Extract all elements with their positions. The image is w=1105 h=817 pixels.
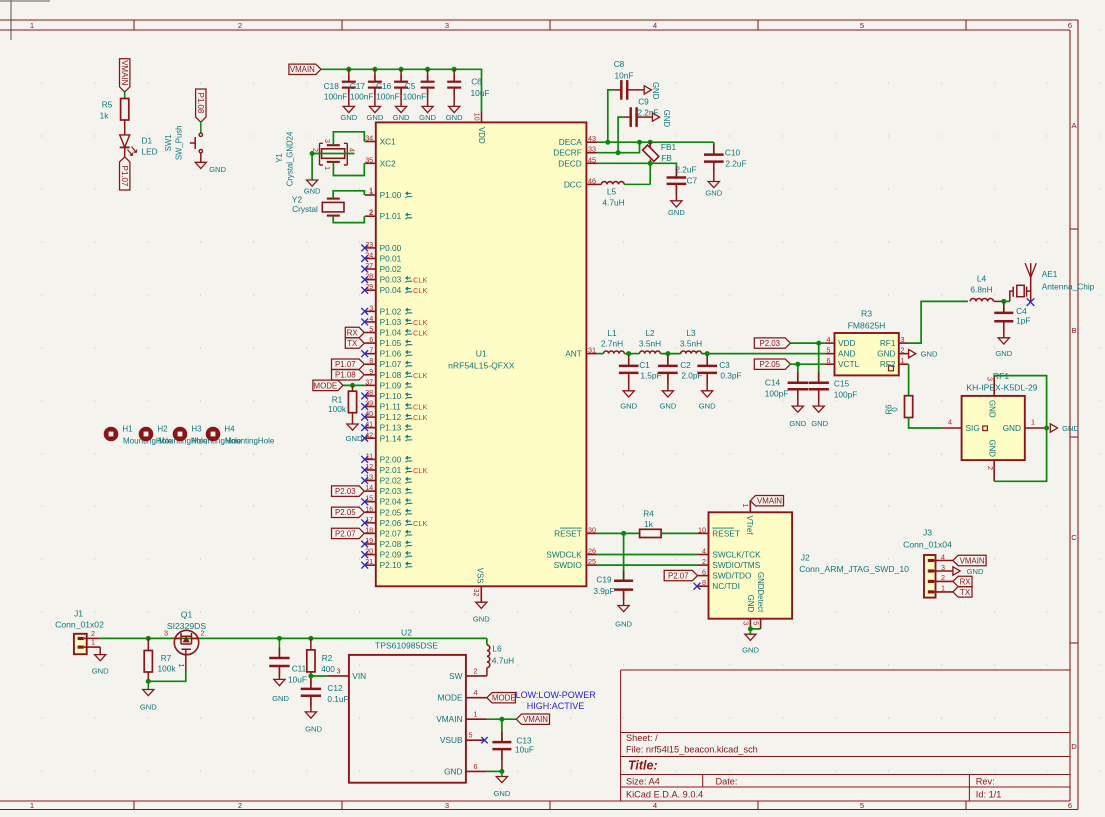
wire SWDIO <box>597 564 697 566</box>
capacitor C7 2.2uF <box>675 167 677 178</box>
svg-text:3: 3 <box>337 666 341 675</box>
svg-text:D1: D1 <box>142 135 153 145</box>
svg-text:L4: L4 <box>977 274 987 284</box>
svg-text:P1.07: P1.07 <box>380 359 402 369</box>
svg-text:XC2: XC2 <box>380 158 397 168</box>
junction <box>399 67 404 72</box>
svg-text:1: 1 <box>901 356 905 365</box>
U1 pin 2 P1.01 <box>365 215 376 217</box>
ground <box>745 634 756 640</box>
U1 pin 23 P0.00 <box>365 247 376 249</box>
svg-text:100pF: 100pF <box>834 390 858 400</box>
svg-text:MountingHole: MountingHole <box>225 436 275 445</box>
svg-text:2: 2 <box>901 346 905 355</box>
svg-text:KH-IPEX-K5DL-29: KH-IPEX-K5DL-29 <box>966 382 1037 392</box>
wire <box>200 153 202 162</box>
svg-text:0.1uF: 0.1uF <box>327 694 348 704</box>
U1 pin 13 P2.02 <box>365 480 376 482</box>
J2 pin 3 GND bottom <box>749 619 751 629</box>
wire R6 to SIG <box>909 418 942 429</box>
wire P1.00 <box>333 191 364 199</box>
wire C14 riser <box>797 364 799 382</box>
svg-text:32: 32 <box>472 589 481 597</box>
svg-text:FM8625H: FM8625H <box>848 321 886 331</box>
no-connect X <box>361 414 368 421</box>
svg-text:Sheet: /: Sheet: / <box>626 733 658 743</box>
U1 pin 11 P2.00 <box>365 458 376 460</box>
svg-text:GND: GND <box>705 188 722 197</box>
svg-text:P2.07: P2.07 <box>380 528 402 538</box>
svg-text:R3: R3 <box>861 309 872 319</box>
svg-text:P1.12: P1.12 <box>380 412 402 422</box>
svg-text:1: 1 <box>30 21 34 30</box>
svg-text:P1.04: P1.04 <box>380 328 402 338</box>
wire <box>790 342 824 344</box>
svg-text:P1.03: P1.03 <box>380 317 402 327</box>
svg-text:GND: GND <box>699 402 716 411</box>
wire <box>638 116 653 118</box>
U1 pin 40 P1.12 <box>365 416 376 418</box>
capacitor C6 <box>453 69 455 81</box>
ground <box>95 655 106 661</box>
capacitor C9 2.2nF <box>629 107 632 127</box>
svg-text:8: 8 <box>702 578 706 587</box>
svg-text:VTref: VTref <box>745 516 754 536</box>
wire XC2 <box>333 162 364 176</box>
svg-text:GND: GND <box>419 113 436 122</box>
junction <box>621 531 626 536</box>
U2 pin 3 VIN <box>328 675 349 677</box>
inductor L2 3.5nH <box>640 351 661 354</box>
hier label VMAIN (rail) <box>289 64 321 74</box>
resistor R2 400 <box>310 638 312 650</box>
ground <box>307 180 318 186</box>
wire <box>624 353 639 355</box>
svg-text:CLK: CLK <box>413 466 427 475</box>
U1 pin 42 P1.14 <box>365 437 376 439</box>
svg-text:P1.08: P1.08 <box>380 370 402 380</box>
svg-text:GNDDetect: GNDDetect <box>756 572 765 613</box>
no-connect X <box>361 308 368 315</box>
svg-text:18: 18 <box>365 525 373 534</box>
U1 pin 8 P1.07 <box>365 363 376 365</box>
inductor L1 2.7nH <box>604 351 625 354</box>
svg-text:C11: C11 <box>292 663 307 673</box>
J3 pin 1 <box>928 590 934 593</box>
capacitor C2 2.0pF <box>667 354 669 366</box>
U1 nRF54L15-QFXX body <box>376 122 587 586</box>
svg-text:P1.07: P1.07 <box>120 166 129 187</box>
svg-text:GND: GND <box>304 187 321 196</box>
no-connect X <box>361 403 368 410</box>
hier label P1.08 <box>332 370 365 380</box>
svg-text:20: 20 <box>365 547 373 556</box>
svg-text:4: 4 <box>653 21 657 30</box>
J3 pin 2 <box>928 580 934 583</box>
hier label VMAIN (LED branch) <box>120 59 130 92</box>
wire XC1 <box>333 132 364 145</box>
ground at VSS <box>476 602 487 608</box>
wire SWDCLK <box>597 554 697 556</box>
inductor L3 3.5nH <box>681 351 702 354</box>
svg-text:3: 3 <box>445 21 449 30</box>
svg-text:4: 4 <box>827 335 831 344</box>
U1 pin 17 P2.06 <box>365 522 376 524</box>
svg-text:C8: C8 <box>614 59 625 69</box>
junction <box>499 717 504 722</box>
svg-text:26: 26 <box>588 547 596 556</box>
no-connect X <box>361 498 368 505</box>
RF1 KH-IPEX-K5DL-29 body <box>962 396 1025 460</box>
svg-text:6: 6 <box>1068 801 1072 810</box>
U1 pin 19 P2.08 <box>365 543 376 545</box>
svg-text:GND: GND <box>662 110 671 128</box>
no-connect X <box>361 435 368 442</box>
svg-text:H1: H1 <box>122 425 133 434</box>
svg-text:100nF: 100nF <box>350 92 374 102</box>
svg-text:LED: LED <box>142 146 158 156</box>
svg-text:P2.06: P2.06 <box>380 518 402 528</box>
wire C4 riser <box>1003 301 1005 312</box>
page origin axis marker <box>0 0 50 2</box>
ground <box>274 679 285 685</box>
no-connect X <box>361 287 368 294</box>
no-connect X <box>361 519 368 526</box>
svg-text:2: 2 <box>201 629 205 638</box>
junction <box>748 626 753 631</box>
wire <box>311 154 313 180</box>
U1 pin 9 P1.08 <box>365 374 376 376</box>
no-connect X <box>361 245 368 252</box>
R3 pin 6 VCTL <box>825 363 835 365</box>
ground <box>195 162 206 168</box>
U1 pin 29 P0.04 <box>365 289 376 291</box>
svg-text:100nF: 100nF <box>403 92 427 102</box>
svg-text:C15: C15 <box>834 378 850 388</box>
svg-text:1: 1 <box>1031 417 1035 426</box>
inductor L5 4.7uH <box>597 183 601 185</box>
svg-text:GND: GND <box>92 667 109 676</box>
RF1 pin 4 SIG <box>941 427 961 429</box>
svg-text:5: 5 <box>827 346 831 355</box>
hier label P2.07 <box>332 528 365 538</box>
svg-text:GND: GND <box>620 402 637 411</box>
U1 pin 18 P2.07 <box>365 532 376 534</box>
svg-text:1: 1 <box>941 584 945 593</box>
wire <box>750 629 760 634</box>
wire VIN <box>311 675 328 677</box>
svg-text:GND: GND <box>140 703 157 712</box>
svg-text:L1: L1 <box>607 328 617 338</box>
svg-text:VMAIN: VMAIN <box>757 497 782 506</box>
svg-text:RESET: RESET <box>712 528 740 538</box>
svg-text:37: 37 <box>365 377 373 386</box>
svg-text:2.7nH: 2.7nH <box>601 338 623 348</box>
svg-text:400: 400 <box>321 664 335 674</box>
svg-text:33: 33 <box>588 145 596 154</box>
resistor R6 0 <box>908 364 910 396</box>
svg-text:3.5nH: 3.5nH <box>680 338 702 348</box>
svg-text:2: 2 <box>91 629 95 638</box>
svg-text:VMAIN: VMAIN <box>523 715 548 724</box>
J2 pin 6 SWD/TDO <box>698 575 709 577</box>
svg-text:P0.00: P0.00 <box>380 243 402 253</box>
svg-text:11: 11 <box>366 451 373 460</box>
svg-text:CLK: CLK <box>413 318 427 327</box>
svg-text:P1.06: P1.06 <box>380 349 402 359</box>
capacitor C19 3.9pF <box>623 570 625 581</box>
wire <box>661 532 697 534</box>
no-connect X <box>361 319 368 326</box>
svg-text:10nF: 10nF <box>615 71 634 81</box>
svg-text:3.9pF: 3.9pF <box>593 586 614 596</box>
svg-text:6: 6 <box>369 335 373 344</box>
wire <box>310 672 312 688</box>
svg-text:C6: C6 <box>471 77 482 87</box>
U1 pin 31 ANT <box>586 353 597 355</box>
R3 pin 1 RF2 <box>899 363 909 365</box>
svg-text:VDD: VDD <box>838 338 856 348</box>
title block <box>621 669 1070 671</box>
junction <box>499 769 504 774</box>
svg-text:MODE: MODE <box>438 693 463 703</box>
svg-text:42: 42 <box>365 430 373 439</box>
svg-text:U2: U2 <box>401 627 412 637</box>
svg-text:P1.10: P1.10 <box>380 391 402 401</box>
svg-text:C9: C9 <box>638 96 649 106</box>
wire <box>487 718 516 720</box>
svg-text:P2.01: P2.01 <box>380 465 402 475</box>
wire <box>713 163 715 182</box>
ground <box>449 106 460 112</box>
svg-text:10: 10 <box>698 525 706 534</box>
svg-text:P0.04: P0.04 <box>380 285 402 295</box>
svg-text:SWDIO/TMS: SWDIO/TMS <box>712 560 760 570</box>
svg-text:10: 10 <box>473 113 482 121</box>
svg-text:R5: R5 <box>102 99 113 109</box>
U1 pin 28 P0.03 <box>365 279 376 281</box>
svg-text:GND: GND <box>921 350 938 359</box>
svg-text:GND: GND <box>988 439 997 457</box>
capacitor C12 0.1uF <box>310 678 312 689</box>
U1 pin 4 P1.03 <box>365 321 376 323</box>
svg-text:2: 2 <box>474 666 478 675</box>
svg-text:DECD: DECD <box>558 158 582 168</box>
J1 Conn_01x02 body <box>74 634 87 654</box>
svg-text:100k: 100k <box>158 663 177 673</box>
svg-text:VMAIN: VMAIN <box>436 714 462 724</box>
wire <box>124 120 126 135</box>
wire C15 riser <box>818 343 820 382</box>
svg-text:DECRF: DECRF <box>553 148 582 158</box>
svg-text:Title:: Title: <box>628 759 658 773</box>
svg-text:J3: J3 <box>923 528 932 538</box>
svg-text:24: 24 <box>365 250 373 259</box>
wire <box>200 122 202 133</box>
svg-text:35: 35 <box>365 155 373 164</box>
svg-text:GND: GND <box>742 645 759 654</box>
capacitor C11 10uF <box>278 638 280 657</box>
svg-text:C10: C10 <box>725 148 741 158</box>
no-connect X <box>361 456 368 463</box>
svg-text:C1: C1 <box>639 360 650 370</box>
svg-text:GND: GND <box>209 165 226 174</box>
svg-text:6: 6 <box>1068 21 1072 30</box>
capacitor C17 <box>374 69 376 81</box>
svg-text:6: 6 <box>474 762 478 771</box>
wire DECA rail <box>597 141 713 143</box>
svg-text:Size: A4: Size: A4 <box>626 777 660 787</box>
svg-text:P1.08: P1.08 <box>196 93 205 114</box>
junction <box>616 150 621 155</box>
svg-text:1k: 1k <box>644 519 654 529</box>
svg-text:R1: R1 <box>332 394 343 404</box>
svg-text:6: 6 <box>702 568 706 577</box>
resistor R5 <box>121 99 129 121</box>
resistor R1 100k <box>348 391 356 413</box>
capacitor C15 100pF <box>818 372 820 383</box>
svg-text:43: 43 <box>588 134 596 143</box>
svg-text:SWD/TDO: SWD/TDO <box>712 571 752 581</box>
J2 pin 5 GNDDetect bottom <box>760 619 762 629</box>
svg-text:P2.05: P2.05 <box>759 360 780 369</box>
LED D1 <box>120 135 130 147</box>
svg-text:GND: GND <box>493 789 510 798</box>
svg-text:Conn_01x04: Conn_01x04 <box>903 539 952 549</box>
svg-text:16: 16 <box>365 504 373 513</box>
svg-text:1pF: 1pF <box>1016 315 1030 325</box>
wire <box>147 672 149 681</box>
svg-text:H2: H2 <box>157 425 168 434</box>
svg-text:2.2uF: 2.2uF <box>725 159 746 169</box>
svg-text:2: 2 <box>986 466 995 470</box>
mounting hole H1 <box>104 427 119 442</box>
junction <box>308 636 313 641</box>
wire C9 riser <box>618 117 624 153</box>
no-connect X <box>361 562 368 569</box>
svg-text:RX: RX <box>347 328 359 337</box>
svg-text:P1.13: P1.13 <box>380 423 402 433</box>
U1 pin 45 DECD <box>586 162 597 164</box>
svg-text:2.2uF: 2.2uF <box>675 164 696 174</box>
svg-text:LOW:LOW-POWER: LOW:LOW-POWER <box>516 690 597 700</box>
svg-text:1: 1 <box>474 710 478 719</box>
hier label TX <box>345 338 364 348</box>
junction <box>277 636 282 641</box>
inductor L4 6.8nH <box>970 298 993 301</box>
hier label P2.07 at J2 <box>664 570 697 580</box>
svg-text:34: 34 <box>365 134 373 143</box>
wire gate <box>148 671 186 682</box>
J1 pin 2 <box>78 637 84 640</box>
svg-text:3: 3 <box>986 377 995 381</box>
svg-text:P1.07: P1.07 <box>335 360 356 369</box>
svg-text:RF1: RF1 <box>880 338 896 348</box>
svg-text:GND: GND <box>651 82 660 100</box>
svg-text:10uF: 10uF <box>288 674 307 684</box>
svg-text:3: 3 <box>164 629 168 638</box>
svg-text:2: 2 <box>238 21 242 30</box>
U1 pin 16 P2.05 <box>365 511 376 513</box>
svg-text:P2.10: P2.10 <box>380 560 402 570</box>
ground <box>422 106 433 112</box>
wire main power rail <box>99 637 487 639</box>
hier label P1.07 <box>332 359 365 369</box>
junction <box>146 636 151 641</box>
junction <box>350 383 355 388</box>
svg-text:GND: GND <box>659 402 676 411</box>
svg-text:GND: GND <box>473 615 490 624</box>
wire DECRF <box>597 142 639 153</box>
svg-text:13: 13 <box>365 473 373 482</box>
ground flag at J3 pin 3 <box>953 567 960 575</box>
J2 Conn_ARM_JTAG_SWD_10 body <box>709 512 793 618</box>
ground <box>496 777 507 783</box>
svg-text:GND: GND <box>346 434 363 443</box>
wire <box>675 185 677 201</box>
J2 pin 10 RESET <box>698 532 709 534</box>
svg-text:CLK: CLK <box>413 329 427 338</box>
svg-text:L3: L3 <box>686 328 696 338</box>
ground flag (right) at C9 <box>652 113 659 121</box>
svg-text:Conn_01x02: Conn_01x02 <box>55 619 104 629</box>
svg-text:CLK: CLK <box>413 286 427 295</box>
svg-text:P2.07: P2.07 <box>335 529 356 538</box>
svg-text:100nF: 100nF <box>324 92 348 102</box>
svg-text:R7: R7 <box>161 653 172 663</box>
svg-text:3.5nH: 3.5nH <box>639 338 661 348</box>
svg-text:VMAIN: VMAIN <box>120 60 129 85</box>
svg-text:SWDCLK: SWDCLK <box>546 550 582 560</box>
svg-text:GND: GND <box>615 620 632 629</box>
svg-text:P1.01: P1.01 <box>380 211 402 221</box>
hier label VMAIN at J3 <box>953 555 986 565</box>
svg-text:TX: TX <box>960 588 971 597</box>
junction <box>1001 299 1006 304</box>
ground <box>618 606 629 612</box>
svg-text:P1.08: P1.08 <box>335 371 356 380</box>
svg-text:2: 2 <box>238 801 242 810</box>
wire MODE to P1.09 <box>343 384 365 386</box>
U1 pin 5 P1.04 <box>365 332 376 334</box>
svg-text:TPS610985DSE: TPS610985DSE <box>375 640 438 650</box>
svg-text:4: 4 <box>702 547 706 556</box>
U1 pin 34 XC1 <box>365 141 376 143</box>
svg-text:Date:: Date: <box>716 777 738 787</box>
svg-text:P1.11: P1.11 <box>380 402 401 412</box>
U1 pin 27 P0.02 <box>365 268 376 270</box>
svg-text:MODE: MODE <box>492 694 516 703</box>
ferrite bead FB1 <box>649 142 651 147</box>
hier label P2.03 <box>754 338 790 348</box>
svg-text:GND: GND <box>789 419 806 428</box>
ground <box>998 338 1009 344</box>
svg-text:ANT: ANT <box>565 349 582 359</box>
svg-text:8: 8 <box>369 356 373 365</box>
svg-text:3: 3 <box>901 335 905 344</box>
svg-text:GND: GND <box>444 766 462 776</box>
U1 pin 37 P1.09 <box>365 384 376 386</box>
U1 pin 33 DECRF <box>586 152 597 154</box>
U1 pin 46 DCC <box>586 183 597 185</box>
svg-text:GND: GND <box>340 113 357 122</box>
no-connect X <box>361 477 368 484</box>
wire <box>487 770 502 772</box>
svg-text:GND: GND <box>393 113 410 122</box>
U2 pin 5 VSUB <box>466 739 484 741</box>
svg-text:SW1: SW1 <box>164 134 173 151</box>
svg-text:14: 14 <box>365 483 373 492</box>
